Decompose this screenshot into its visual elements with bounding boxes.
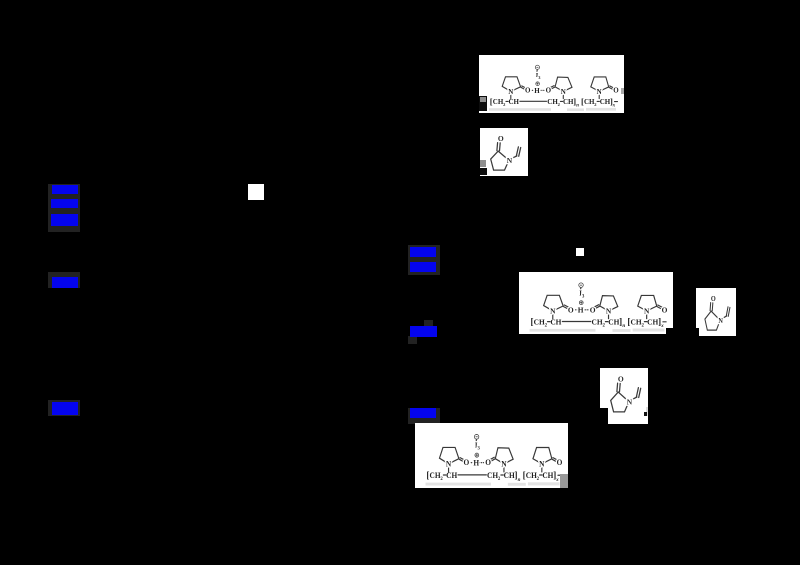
svg-text:x: x xyxy=(612,104,616,109)
artifact gray tick box1 right edge xyxy=(621,88,624,94)
svg-text:N: N xyxy=(539,459,545,468)
small white square middle xyxy=(576,248,584,256)
C=O double bond xyxy=(710,303,713,311)
carbonyl C=O ring2 xyxy=(490,457,495,461)
vinyl C=C double bond xyxy=(516,147,520,156)
backbone dash 3 xyxy=(597,100,599,102)
C=O double bond xyxy=(497,143,500,151)
vinyl C=C double bond xyxy=(636,388,640,398)
pyrrolidone ring 1 xyxy=(439,447,458,463)
svg-text:H: H xyxy=(534,87,540,95)
svg-text:N: N xyxy=(627,397,633,406)
artifact dark glyph at box1 left edge xyxy=(479,96,487,111)
left single highlight 2 xyxy=(48,400,80,416)
highlight bar mid-right with gray marks xyxy=(424,320,433,327)
N-vinyl bond xyxy=(631,397,637,400)
svg-text:O: O xyxy=(662,305,668,314)
svg-text:2: 2 xyxy=(503,102,506,107)
svg-text:O: O xyxy=(613,87,619,95)
carbonyl C=O ring2 xyxy=(594,305,599,309)
hydrogen bond dots O...H...O xyxy=(530,90,545,91)
pyrrolidone ring 2 xyxy=(600,296,618,311)
svg-text:3: 3 xyxy=(582,294,585,299)
N-CH bond ring2 xyxy=(562,94,564,99)
highlighted term panel (3 lines) left xyxy=(48,184,80,232)
N-CH bond ring2 xyxy=(608,313,610,318)
N-vinyl bond xyxy=(722,316,727,319)
svg-text:N: N xyxy=(508,88,513,96)
svg-text:CH: CH xyxy=(504,471,515,480)
N-CH bond ring1 xyxy=(510,94,512,99)
notch nvp2 bottom left xyxy=(696,328,699,336)
triiodide I3 bond xyxy=(536,70,538,72)
trailing bond xyxy=(663,321,666,323)
backbone dash 1 xyxy=(548,321,550,323)
small white square left-middle xyxy=(248,184,264,200)
plus charge on H xyxy=(474,434,478,457)
N-CH bond ring3 xyxy=(541,466,543,471)
highlighted term panel right (2 lines) xyxy=(408,245,440,275)
pyrrolidone ring 3 xyxy=(638,295,657,311)
minus charge on I3 xyxy=(579,283,583,287)
highlight bar r2 xyxy=(410,262,436,272)
svg-text:CH: CH xyxy=(550,317,561,326)
pyrrolidone ring 1 xyxy=(502,77,520,92)
N-CH bond ring3 xyxy=(646,313,648,318)
carbonyl C=O ring3 xyxy=(657,305,662,309)
carbonyl C=O ring1 xyxy=(564,305,569,309)
triiodide I3 bond xyxy=(579,288,581,291)
svg-text:N: N xyxy=(446,459,452,468)
svg-text:x: x xyxy=(660,323,664,329)
pyrrolidone ring xyxy=(705,311,720,330)
svg-text:CH: CH xyxy=(542,471,553,480)
svg-text:H: H xyxy=(473,458,479,467)
backbone dash 2 xyxy=(560,100,562,102)
backbone dash 3 xyxy=(540,474,542,476)
NVP monomer box 2 xyxy=(696,288,736,336)
pyrrolidone ring 2 xyxy=(555,77,572,91)
svg-text:2: 2 xyxy=(602,324,605,329)
N-CH bond ring1 xyxy=(448,466,450,471)
left single highlight 1 xyxy=(48,272,80,288)
svg-text:CH: CH xyxy=(647,317,658,326)
N-CH bond ring3 xyxy=(598,94,600,99)
carbonyl C=O ring3 xyxy=(552,458,557,462)
svg-text:3: 3 xyxy=(538,75,541,80)
carbonyl C=O ring3 xyxy=(609,86,614,90)
backbone long bond xyxy=(520,100,547,102)
trailing bond xyxy=(615,101,618,103)
pyrrolidone ring xyxy=(491,151,509,170)
highlight bar r1 xyxy=(410,247,436,257)
svg-text:CH: CH xyxy=(534,317,545,326)
svg-text:O: O xyxy=(568,305,574,314)
highlight bar 2 xyxy=(51,199,78,208)
svg-text:2: 2 xyxy=(558,102,561,107)
carbonyl C=O ring1 xyxy=(521,86,526,90)
svg-text:n: n xyxy=(576,104,579,109)
svg-text:CH: CH xyxy=(487,471,498,480)
svg-text:2: 2 xyxy=(594,102,597,107)
svg-text:O: O xyxy=(557,458,563,467)
svg-text:2: 2 xyxy=(641,324,644,329)
svg-text:2: 2 xyxy=(545,324,548,329)
backbone dash 2 xyxy=(605,321,607,323)
svg-text:N: N xyxy=(644,307,650,316)
N-CH bond ring2 xyxy=(503,466,505,471)
backbone dash 1 xyxy=(506,100,508,102)
svg-text:2: 2 xyxy=(537,477,540,482)
NVP monomer box 3 xyxy=(600,368,648,424)
pyrrolidone ring xyxy=(611,392,629,412)
svg-text:N: N xyxy=(606,307,612,316)
artifact gray step box3 right xyxy=(560,474,568,488)
pyrrolidone ring 3 xyxy=(533,448,552,464)
highlight bar 3 xyxy=(51,214,78,226)
svg-text:O: O xyxy=(546,87,552,95)
pyrrolidone ring 1 xyxy=(544,295,564,311)
faint gray bands under backbone xyxy=(426,482,560,485)
svg-text:n: n xyxy=(518,477,521,483)
svg-text:N: N xyxy=(501,459,507,468)
PVP-iodine structure box 2 (middle) xyxy=(519,272,673,334)
svg-text:O: O xyxy=(711,296,716,304)
svg-text:N: N xyxy=(597,88,602,96)
svg-text:CH: CH xyxy=(592,317,603,326)
carbonyl C=O ring1 xyxy=(459,458,464,462)
N-vinyl bond xyxy=(511,156,517,159)
NVP monomer box 1 xyxy=(480,128,528,176)
svg-text:N: N xyxy=(718,318,723,326)
faint gray bands under backbone xyxy=(530,329,665,332)
triiodide I3 bond xyxy=(475,440,477,443)
artifact gray square nvp1 xyxy=(480,160,486,167)
PVP-iodine structure box 1 (top right) xyxy=(479,55,624,113)
dot nvp3 xyxy=(644,412,647,416)
backbone long bond xyxy=(458,474,486,476)
svg-text:N: N xyxy=(561,88,566,96)
svg-text:3: 3 xyxy=(478,447,481,452)
plus charge on H xyxy=(579,283,583,305)
svg-text:O: O xyxy=(618,374,624,383)
light strip nvp3 right xyxy=(646,407,648,416)
svg-text:n: n xyxy=(622,323,625,329)
svg-text:N: N xyxy=(550,307,556,316)
PVP-iodine structure box 3 (bottom) xyxy=(415,423,568,488)
trailing bond xyxy=(558,474,561,476)
backbone long bond xyxy=(562,320,590,322)
backbone dash 2 xyxy=(501,474,503,476)
svg-text:CH: CH xyxy=(509,98,520,106)
svg-text:x: x xyxy=(555,477,559,483)
svg-text:O: O xyxy=(590,305,596,314)
notch nvp3 bottom left xyxy=(600,408,608,424)
svg-text:2: 2 xyxy=(498,477,501,482)
carbonyl C=O ring2 xyxy=(550,86,555,90)
N-CH bond ring1 xyxy=(552,313,554,318)
pyrrolidone ring 2 xyxy=(495,448,513,464)
backbone dash 1 xyxy=(443,474,445,476)
pyrrolidone ring 3 xyxy=(591,77,609,92)
svg-text:CH: CH xyxy=(608,317,619,326)
svg-text:N: N xyxy=(507,156,513,165)
vinyl C=C double bond xyxy=(726,307,730,316)
svg-text:O: O xyxy=(464,458,470,467)
svg-text:CH: CH xyxy=(631,317,642,326)
highlight bar 1 xyxy=(52,185,78,194)
artifact dark glyph nvp1 xyxy=(480,168,487,175)
hydrogen bond dots O...H...O xyxy=(573,309,588,310)
svg-text:CH: CH xyxy=(446,471,457,480)
C=O double bond xyxy=(617,383,620,392)
hydrogen bond dots O...H...O xyxy=(469,462,484,463)
minus charge on I3 xyxy=(535,65,539,69)
svg-text:CH: CH xyxy=(526,471,537,480)
faint gray bands under backbone xyxy=(489,108,616,111)
svg-text:H: H xyxy=(578,305,584,314)
svg-text:O: O xyxy=(498,134,504,143)
right single highlight xyxy=(408,408,440,424)
svg-text:O: O xyxy=(525,87,531,95)
svg-text:2: 2 xyxy=(440,477,443,482)
svg-text:O: O xyxy=(485,458,491,467)
backbone dash 3 xyxy=(644,321,646,323)
svg-text:CH: CH xyxy=(430,471,441,480)
notch box2 bottom right xyxy=(666,328,673,334)
plus charge on H xyxy=(535,65,539,85)
minus charge on I3 xyxy=(474,434,478,439)
